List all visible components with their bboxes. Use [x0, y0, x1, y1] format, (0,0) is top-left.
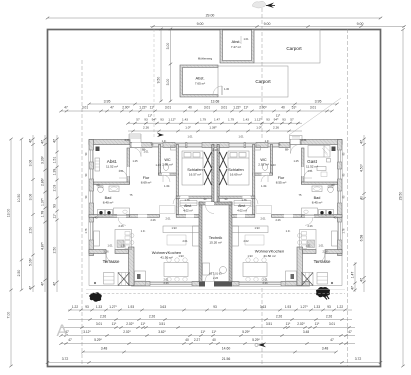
svg-text:47: 47	[41, 282, 45, 286]
svg-text:15.20 m²: 15.20 m²	[209, 241, 221, 245]
svg-text:11⁵: 11⁵	[212, 330, 217, 334]
wall WC south left	[159, 173, 179, 175]
svg-text:1.43: 1.43	[270, 163, 276, 167]
svg-text:1.93: 1.93	[178, 254, 184, 258]
setback dashed line left	[81, 60, 83, 366]
bed Gast right	[308, 146, 330, 158]
svg-text:Terrasse: Terrasse	[314, 259, 331, 264]
svg-text:40: 40	[185, 338, 189, 342]
svg-text:2.27: 2.27	[194, 338, 200, 342]
window top WC left	[152, 143, 163, 148]
svg-text:47: 47	[68, 338, 72, 342]
svg-text:WC: WC	[260, 158, 267, 162]
svg-text:Abst.: Abst.	[107, 159, 117, 164]
wall over terrace right	[325, 250, 342, 254]
terrace furniture left	[104, 273, 115, 285]
svg-text:3.72: 3.72	[62, 357, 69, 361]
tall cabinets right	[286, 271, 297, 286]
svg-text:13.68: 13.68	[211, 99, 220, 103]
wall WC east right	[270, 145, 272, 176]
svg-text:1.47: 1.47	[351, 272, 355, 279]
window east Bad	[338, 191, 343, 203]
kitchen island right	[300, 230, 317, 250]
svg-text:1.0⁵: 1.0⁵	[256, 125, 262, 129]
east exterior wall	[338, 140, 343, 256]
svg-text:1.37⁵: 1.37⁵	[41, 197, 45, 206]
svg-text:Technik: Technik	[209, 235, 223, 240]
dimension column left 4	[44, 135, 46, 292]
door arc Abst left	[119, 170, 127, 178]
svg-text:1.47: 1.47	[214, 118, 220, 122]
sofa right	[232, 226, 268, 233]
svg-text:9.00: 9.00	[197, 22, 204, 26]
svg-text:1.43⁵: 1.43⁵	[261, 184, 267, 188]
dimension column 13.00 left	[10, 139, 12, 290]
dining table left	[164, 263, 188, 277]
svg-text:3.95: 3.95	[104, 99, 111, 103]
axis dashed line bottom	[261, 288, 263, 366]
wohnen west wall left	[129, 247, 135, 286]
terrace slab left	[89, 254, 129, 286]
svg-text:2.02⁵: 2.02⁵	[126, 322, 134, 326]
svg-text:1.12⁵: 1.12⁵	[168, 118, 176, 122]
top wall right entrance zone	[290, 140, 301, 145]
svg-text:1.12⁵: 1.12⁵	[254, 118, 262, 122]
door gap Flur-Wohnen left	[138, 215, 147, 218]
terrace door arc left	[106, 254, 115, 263]
window east Wohnen	[338, 222, 343, 240]
wardrobe X left	[204, 152, 212, 185]
svg-text:4.02 m²: 4.02 m²	[183, 209, 193, 213]
svg-text:1.0⁵: 1.0⁵	[141, 229, 146, 233]
svg-text:93: 93	[266, 118, 270, 122]
pier dark right	[332, 147, 336, 152]
desk Gast right	[317, 167, 326, 171]
window west Abst	[89, 150, 94, 162]
svg-text:11⁵: 11⁵	[244, 105, 249, 109]
wohnen east wall right	[297, 247, 303, 286]
svg-text:47: 47	[360, 140, 364, 144]
svg-text:Mühlenweg: Mühlenweg	[198, 57, 213, 61]
svg-text:Abst.: Abst.	[231, 39, 240, 44]
wall Flur south left	[130, 215, 160, 218]
svg-text:3.01: 3.01	[221, 105, 227, 109]
svg-text:Wohnen/Kochen: Wohnen/Kochen	[255, 249, 285, 254]
carport upper outline	[254, 30, 320, 64]
svg-text:1.30: 1.30	[224, 87, 230, 91]
svg-text:Bad: Bad	[105, 196, 112, 200]
svg-text:11⁵: 11⁵	[53, 213, 57, 219]
svg-text:47: 47	[330, 338, 334, 342]
svg-text:1.93: 1.93	[128, 305, 134, 309]
svg-text:2.26: 2.26	[149, 314, 155, 318]
door gap Bad right	[305, 215, 314, 218]
svg-text:1.01: 1.01	[318, 244, 324, 248]
entrance door gap left	[132, 143, 141, 148]
north arrow	[252, 1, 275, 8]
svg-text:2.01: 2.01	[182, 239, 188, 243]
svg-text:51⁵: 51⁵	[292, 105, 298, 109]
svg-text:1.51: 1.51	[53, 157, 57, 164]
dim row D bottom	[61, 335, 355, 337]
svg-text:1.76: 1.76	[343, 228, 346, 233]
wall Schlafen east right	[253, 145, 255, 215]
terrace stairs right	[302, 273, 314, 286]
dimension column 29.50 right	[402, 30, 404, 367]
door gap Schlafen left	[180, 196, 189, 199]
svg-text:Terrasse: Terrasse	[103, 259, 120, 264]
svg-text:2.01: 2.01	[260, 217, 266, 221]
dimension 29.00 overall top	[48, 17, 381, 19]
shrub bottom-right	[316, 287, 330, 297]
WC fixtures right	[262, 164, 267, 171]
svg-text:11⁵: 11⁵	[150, 105, 155, 109]
svg-text:1.93: 1.93	[247, 254, 253, 258]
carport lower outline	[218, 66, 288, 97]
wall Schlafen south right	[219, 196, 255, 199]
wardrobe X right	[220, 152, 228, 185]
Bad fixtures right	[328, 187, 334, 193]
dimension column 3.00/3.00 carport	[170, 29, 172, 102]
door arc Bad right	[305, 217, 313, 225]
svg-text:Flur: Flur	[278, 176, 285, 180]
diagonal leader line right	[289, 98, 341, 135]
svg-text:2.01: 2.01	[163, 278, 169, 282]
svg-text:2.26: 2.26	[322, 250, 328, 254]
svg-text:Abst.: Abst.	[238, 204, 246, 208]
svg-text:4.02 m²: 4.02 m²	[237, 209, 247, 213]
svg-text:3.01: 3.01	[82, 105, 88, 109]
door gap WC left	[162, 173, 170, 175]
dining table right	[243, 263, 267, 277]
svg-text:1.39: 1.39	[53, 169, 57, 176]
svg-text:63 1.01 63: 63 1.01 63	[209, 272, 222, 276]
svg-text:1.27⁵: 1.27⁵	[109, 305, 117, 309]
svg-text:93: 93	[327, 305, 331, 309]
dim row T2	[61, 110, 332, 112]
Technik door bottom	[205, 282, 214, 287]
svg-text:2.02: 2.02	[243, 239, 249, 243]
svg-text:1.76: 1.76	[241, 198, 247, 202]
svg-text:1.31: 1.31	[120, 244, 126, 248]
svg-text:Flur: Flur	[143, 176, 150, 180]
svg-text:1.93: 1.93	[171, 226, 177, 230]
svg-text:3.01: 3.01	[329, 322, 335, 326]
dimension column right inner	[363, 135, 365, 292]
door arc Bad left	[118, 217, 126, 225]
terrace door arc right	[316, 254, 325, 263]
svg-text:2.26: 2.26	[275, 218, 281, 222]
svg-text:40: 40	[212, 338, 216, 342]
svg-text:1.01: 1.01	[307, 169, 313, 173]
svg-text:1.27⁵: 1.27⁵	[300, 305, 308, 309]
Technik north wall	[199, 202, 232, 205]
terrace slab right	[303, 254, 343, 286]
svg-text:3.01: 3.01	[165, 105, 171, 109]
svg-text:9.00: 9.00	[357, 22, 364, 26]
svg-text:8.69 m²: 8.69 m²	[141, 181, 152, 185]
svg-text:5.29⁵: 5.29⁵	[242, 330, 250, 334]
door arc Gast right	[304, 170, 312, 178]
svg-text:Abst.: Abst.	[195, 76, 204, 81]
svg-text:47: 47	[53, 139, 57, 143]
svg-text:1.43: 1.43	[155, 163, 161, 167]
window east Gast2	[338, 169, 343, 179]
svg-text:1.31: 1.31	[305, 244, 311, 248]
svg-text:2.26: 2.26	[262, 281, 268, 285]
wall Gast west right	[302, 148, 305, 184]
bed Schlafen right	[228, 151, 249, 185]
svg-text:3.06: 3.06	[29, 194, 33, 201]
south exterior wall	[132, 282, 310, 287]
sofa left	[163, 226, 199, 233]
building exterior walls	[89, 140, 130, 145]
wall Flur south right	[272, 215, 302, 218]
entrance arrow left	[157, 133, 164, 137]
svg-text:11⁵: 11⁵	[201, 330, 206, 334]
svg-text:16.57 m²: 16.57 m²	[189, 173, 201, 177]
shelf Abst small right	[234, 201, 251, 206]
svg-text:57: 57	[136, 118, 140, 122]
svg-text:7.65 m²: 7.65 m²	[195, 82, 205, 86]
svg-text:3.39⁵: 3.39⁵	[41, 155, 45, 164]
svg-text:93: 93	[213, 305, 217, 309]
svg-text:8.55 m²: 8.55 m²	[276, 181, 287, 185]
svg-text:2.01: 2.01	[301, 138, 307, 142]
svg-text:93: 93	[160, 118, 164, 122]
door gap Technik north	[206, 202, 215, 205]
svg-text:WC: WC	[164, 158, 171, 162]
svg-text:5.29⁵: 5.29⁵	[94, 338, 102, 342]
svg-text:11⁵: 11⁵	[315, 322, 320, 326]
entrance steps left	[129, 134, 141, 143]
dimension column 7.00 left lower	[10, 290, 12, 366]
svg-text:2.02⁵: 2.02⁵	[297, 322, 305, 326]
wall Abst small south left	[176, 215, 199, 218]
window west Wohnen	[89, 222, 94, 240]
door gap Abst left	[127, 167, 130, 176]
storage Abst lower walls	[180, 65, 218, 97]
svg-text:94⁵: 94⁵	[274, 118, 279, 122]
svg-text:3.00: 3.00	[166, 43, 170, 50]
dim row 3.95/13.68/3.95	[89, 103, 337, 105]
svg-text:3.51: 3.51	[159, 322, 165, 326]
wall Schlafen west left	[176, 145, 178, 215]
dim row F bottom	[83, 351, 336, 353]
svg-text:5.29⁵: 5.29⁵	[252, 338, 260, 342]
svg-text:1.43⁵: 1.43⁵	[164, 184, 170, 188]
door arc Abst small left	[179, 206, 186, 213]
dimension column 9.50	[160, 29, 162, 102]
svg-text:3.48: 3.48	[322, 347, 329, 351]
door gap Abst small left	[186, 215, 194, 218]
svg-text:41.50 m²: 41.50 m²	[160, 256, 172, 260]
svg-text:93: 93	[85, 305, 89, 309]
svg-text:3.62⁵: 3.62⁵	[158, 330, 166, 334]
window west Abst2	[89, 169, 94, 179]
svg-text:47: 47	[53, 282, 57, 286]
storage Abst upper walls	[220, 30, 254, 64]
svg-text:2.26: 2.26	[326, 314, 332, 318]
svg-text:3.01: 3.01	[96, 322, 102, 326]
svg-text:1.33: 1.33	[314, 305, 320, 309]
svg-text:3.48: 3.48	[101, 347, 108, 351]
svg-text:1.33: 1.33	[96, 305, 102, 309]
svg-text:3.95: 3.95	[315, 99, 322, 103]
wall over terrace left	[89, 250, 106, 254]
svg-text:Carport: Carport	[255, 79, 271, 84]
door arc WC left	[163, 175, 170, 182]
svg-text:3.72: 3.72	[355, 357, 362, 361]
entrance recess band (middle top wall)	[130, 143, 290, 148]
svg-text:Carport: Carport	[286, 46, 302, 51]
wall WC south right	[253, 173, 273, 175]
svg-text:1.76: 1.76	[85, 228, 88, 233]
Technik west wall	[199, 202, 202, 282]
svg-text:11⁵: 11⁵	[112, 322, 117, 326]
party wall	[212, 145, 214, 203]
south arrow bottom	[255, 342, 266, 347]
svg-text:1.22⁵: 1.22⁵	[233, 105, 241, 109]
shelf Abst small left	[180, 201, 197, 206]
svg-text:2.50: 2.50	[53, 247, 57, 254]
svg-text:2.01: 2.01	[165, 217, 171, 221]
svg-text:3.00: 3.00	[166, 79, 170, 86]
svg-text:2.26: 2.26	[213, 276, 219, 280]
svg-text:2.86 m²: 2.86 m²	[162, 163, 173, 167]
door gap Schlafen right	[243, 196, 252, 199]
entrance door gap right	[291, 140, 300, 145]
svg-text:11.52 m²: 11.52 m²	[306, 165, 318, 169]
svg-text:47: 47	[29, 139, 33, 143]
svg-text:47: 47	[360, 278, 364, 282]
door marks upper Abst	[240, 36, 242, 44]
entrance porch outline right	[290, 136, 303, 140]
door arc WC right	[261, 175, 268, 182]
svg-text:1.22⁵: 1.22⁵	[139, 105, 147, 109]
window top Schlafen left	[187, 143, 202, 148]
dim row A bottom	[68, 309, 352, 311]
svg-text:1.22: 1.22	[337, 305, 343, 309]
WC fixtures left	[163, 164, 168, 171]
dimension column left 5	[56, 135, 58, 292]
svg-text:94⁵: 94⁵	[152, 118, 157, 122]
svg-text:1.0⁵: 1.0⁵	[286, 229, 291, 233]
dimension column 10.50 / 2.50	[21, 139, 23, 290]
dimension row 9.00 street	[150, 26, 405, 28]
Technik south dark sill	[199, 282, 232, 287]
flur wardrobe right	[256, 206, 272, 214]
wall Abst east left	[127, 148, 130, 184]
dim row C bottom	[61, 327, 355, 329]
svg-text:1.79: 1.79	[228, 118, 234, 122]
svg-text:3.06: 3.06	[29, 160, 33, 167]
svg-text:41.50 m²: 41.50 m²	[263, 254, 275, 258]
terrace door south right	[239, 282, 281, 287]
svg-text:47: 47	[351, 286, 355, 290]
svg-text:11⁵: 11⁵	[286, 322, 291, 326]
svg-text:40: 40	[360, 196, 364, 200]
window west Bad	[89, 191, 94, 203]
svg-text:9.00: 9.00	[264, 22, 271, 26]
svg-text:2.92 m²: 2.92 m²	[258, 163, 269, 167]
svg-text:1.01: 1.01	[238, 135, 244, 139]
svg-text:2.00⁵: 2.00⁵	[122, 105, 130, 109]
svg-text:1.76: 1.76	[184, 198, 190, 202]
svg-text:1.21⁵: 1.21⁵	[212, 148, 218, 152]
wall Bad south right	[302, 215, 343, 218]
svg-text:1.25: 1.25	[293, 159, 299, 163]
svg-text:40: 40	[281, 105, 285, 109]
svg-text:2.02⁵: 2.02⁵	[123, 330, 131, 334]
svg-text:1.0⁵: 1.0⁵	[162, 139, 167, 143]
wall Schlafen south left	[176, 196, 212, 199]
window top Flur left	[175, 143, 186, 148]
svg-text:1.93: 1.93	[254, 226, 260, 230]
svg-text:2.26: 2.26	[276, 314, 282, 318]
small survey dot left	[94, 282, 96, 284]
window east Gast	[338, 150, 343, 162]
door arc Abst small right	[246, 206, 253, 213]
wall Abst small south right	[232, 215, 255, 218]
svg-text:3.51: 3.51	[266, 322, 272, 326]
sideboard west wall left	[94, 231, 100, 246]
svg-text:Wohnen/Kochen: Wohnen/Kochen	[152, 250, 182, 255]
svg-text:47: 47	[64, 105, 68, 109]
svg-text:14.60: 14.60	[222, 347, 231, 351]
svg-text:11.52 m²: 11.52 m²	[106, 165, 118, 169]
svg-text:1.93: 1.93	[285, 305, 291, 309]
terrace furniture right	[317, 273, 328, 285]
svg-text:2.26: 2.26	[163, 281, 169, 285]
terrace door south left	[150, 282, 192, 287]
svg-text:29.50: 29.50	[399, 192, 403, 201]
svg-text:2.50: 2.50	[29, 227, 33, 234]
svg-text:93: 93	[282, 118, 286, 122]
door gap Bad left	[117, 215, 126, 218]
entrance door arc left	[132, 148, 141, 157]
terrace stairs left	[118, 273, 130, 286]
svg-text:47: 47	[41, 140, 45, 144]
svg-text:6.58: 6.58	[360, 235, 364, 242]
svg-text:2.01: 2.01	[124, 138, 130, 142]
entrance steps right	[292, 137, 300, 139]
svg-text:2.26: 2.26	[118, 224, 124, 228]
svg-text:40: 40	[188, 105, 192, 109]
svg-text:2.01: 2.01	[262, 278, 268, 282]
door arc Schlafen left	[173, 196, 181, 204]
svg-text:2.00⁵: 2.00⁵	[259, 105, 267, 109]
svg-text:9.50: 9.50	[157, 77, 161, 84]
svg-text:1.01: 1.01	[107, 244, 113, 248]
svg-text:1.79: 1.79	[200, 118, 206, 122]
svg-text:1.25: 1.25	[132, 159, 138, 163]
svg-text:8.40 m²: 8.40 m²	[103, 201, 114, 205]
svg-text:1.78: 1.78	[41, 211, 45, 218]
roof overhang dashed bottom	[86, 293, 345, 295]
wall Abst/Bad left	[94, 182, 130, 185]
svg-text:13.00: 13.00	[7, 209, 11, 218]
svg-text:8.45 m²: 8.45 m²	[312, 201, 323, 205]
wall Bad south left	[89, 215, 130, 218]
sideboard east wall right	[332, 231, 338, 246]
svg-text:3.63: 3.63	[260, 305, 266, 309]
west exterior wall	[89, 140, 94, 256]
svg-text:1.38⁵: 1.38⁵	[209, 125, 217, 129]
svg-text:3.48: 3.48	[303, 330, 309, 334]
svg-text:93: 93	[53, 204, 57, 208]
property boundary	[48, 30, 381, 367]
